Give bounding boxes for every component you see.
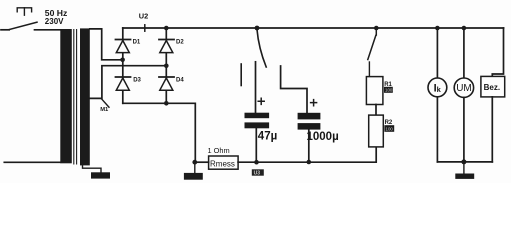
resistor R2	[369, 115, 384, 147]
svg-text:100: 100	[385, 88, 393, 93]
wire top rail	[123, 27, 504, 29]
node B junction dot	[164, 64, 169, 69]
wire meter UM top	[463, 28, 465, 78]
wire node to Rmess	[197, 161, 208, 163]
capacitor C2 1000u plates	[298, 113, 321, 120]
svg-text:Rmess: Rmess	[210, 160, 235, 169]
svg-text:D4: D4	[176, 78, 184, 84]
load box Bez	[481, 76, 505, 97]
wire secondary lower tap to bridge node B	[90, 66, 164, 99]
svg-text:U2: U2	[139, 11, 148, 20]
wire bridge right column	[165, 28, 167, 103]
node Ik top junction dot	[435, 26, 440, 31]
diode D2	[159, 40, 174, 53]
voltmeter UM	[454, 78, 473, 97]
wire C1 to bottom rail	[255, 128, 257, 162]
capacitor C1 47u plates	[245, 113, 270, 119]
svg-text:1 Ohm: 1 Ohm	[208, 146, 230, 155]
wire C2 to bottom rail	[308, 130, 310, 162]
wire bridge left column	[122, 28, 124, 103]
svg-text:Ik: Ik	[434, 83, 442, 95]
capacitor C1 plus sign	[258, 98, 264, 104]
ground bar bridge	[184, 173, 203, 180]
wire meter bottom rail	[437, 161, 492, 163]
svg-text:D2: D2	[176, 40, 184, 46]
node C1 bottom junction dot	[254, 160, 259, 165]
pushbutton switch S1 actuator	[17, 8, 31, 15]
wire bridge bottom rail	[123, 103, 196, 162]
wire mains left lead top	[1, 29, 9, 31]
label U3	[252, 169, 264, 176]
resistor Rmess	[209, 156, 239, 169]
ground bar meters	[455, 174, 474, 179]
diode D4	[159, 77, 174, 90]
wire stem to earth	[463, 162, 465, 174]
capacitor C2 plus sign	[311, 100, 317, 106]
pushbutton switch S1 blade	[9, 22, 37, 29]
transformer T1 primary winding	[60, 29, 72, 163]
wire bottom rail	[238, 147, 376, 162]
wire stem to ground	[194, 162, 196, 173]
wire UM bottom	[463, 98, 465, 162]
resistor R1	[366, 77, 383, 105]
svg-text:Bez.: Bez.	[484, 83, 500, 92]
tap switch blade M1	[102, 99, 110, 107]
wire to load box Bez	[492, 28, 503, 76]
switch S3 blade	[368, 29, 377, 60]
wire Bez bottom	[491, 97, 493, 162]
wire secondary top tap to bridge node A	[90, 29, 121, 60]
wire switch to transformer primary	[35, 29, 61, 31]
diode D1	[116, 40, 131, 53]
wire meter Ik top	[436, 28, 438, 78]
wire mains bottom lead	[4, 161, 60, 163]
diode D3	[116, 77, 131, 90]
svg-text:D1: D1	[133, 40, 141, 46]
transformer T1 secondary winding	[80, 28, 90, 165]
svg-text:D3: D3	[133, 78, 141, 84]
wire secondary bottom to earth	[83, 165, 102, 172]
switch S2 contact	[240, 64, 242, 86]
switch S2 blade	[257, 30, 266, 68]
node UM top junction dot	[462, 26, 467, 31]
wire to capacitor C2	[281, 66, 307, 113]
node smoothing switch junction dot	[255, 26, 260, 31]
svg-text:230V: 230V	[45, 17, 64, 26]
svg-text:1000µ: 1000µ	[307, 131, 339, 143]
measure point U2 tick	[144, 25, 146, 31]
wire Ik bottom	[436, 97, 438, 162]
node bridge bottom junction dot	[164, 101, 169, 106]
node meter ground junction dot	[461, 159, 466, 164]
svg-text:M1: M1	[100, 107, 109, 113]
svg-text:100: 100	[386, 126, 394, 131]
svg-text:UM: UM	[456, 83, 472, 94]
ground bar transformer	[91, 172, 110, 178]
wire to capacitor C1	[255, 62, 257, 113]
node minus junction dot	[192, 160, 197, 165]
svg-text:U3: U3	[254, 171, 261, 177]
ammeter Ik	[428, 78, 447, 97]
wire R1 to R2	[375, 105, 377, 116]
node C2 bottom junction dot	[307, 160, 312, 165]
transformer T1 core	[74, 30, 77, 165]
node right column top junction dot	[164, 26, 169, 31]
svg-text:47µ: 47µ	[258, 130, 277, 142]
node A junction dot	[120, 58, 125, 63]
node load branch junction dot	[374, 26, 379, 31]
wire S3 to R1	[368, 62, 370, 77]
